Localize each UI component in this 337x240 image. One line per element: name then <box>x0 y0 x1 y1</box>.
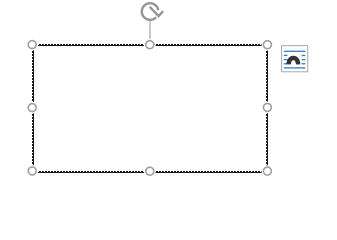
selection border dashed line bottom <box>33 171 267 173</box>
layout options icon: left short lines <box>284 55 288 56</box>
handle top-right <box>262 39 274 51</box>
layout options icon: top full text line <box>284 51 306 52</box>
handle middle-left <box>26 102 38 114</box>
rotation handle stem <box>149 21 151 41</box>
handle middle-right <box>262 102 274 114</box>
handle bottom-right <box>262 165 274 177</box>
layout options icon: wrap arch <box>287 56 300 64</box>
handle top-middle <box>144 39 156 51</box>
layout options button frame <box>282 46 308 72</box>
rotation icon <box>142 3 163 20</box>
layout options icon: bottom full text line <box>284 67 306 68</box>
layout options icon: right short lines <box>302 55 306 56</box>
handle bottom-middle <box>144 165 156 177</box>
handle bottom-left <box>26 165 38 177</box>
layout options icon: arch right foot <box>296 62 300 64</box>
selection border dashed line right <box>266 45 268 171</box>
selection border dashed line top <box>33 44 267 46</box>
selection border dashed line left <box>32 45 34 171</box>
layout options icon: arch left foot <box>287 62 291 64</box>
selection border solid inner line <box>34 46 268 173</box>
handle top-left <box>26 39 38 51</box>
